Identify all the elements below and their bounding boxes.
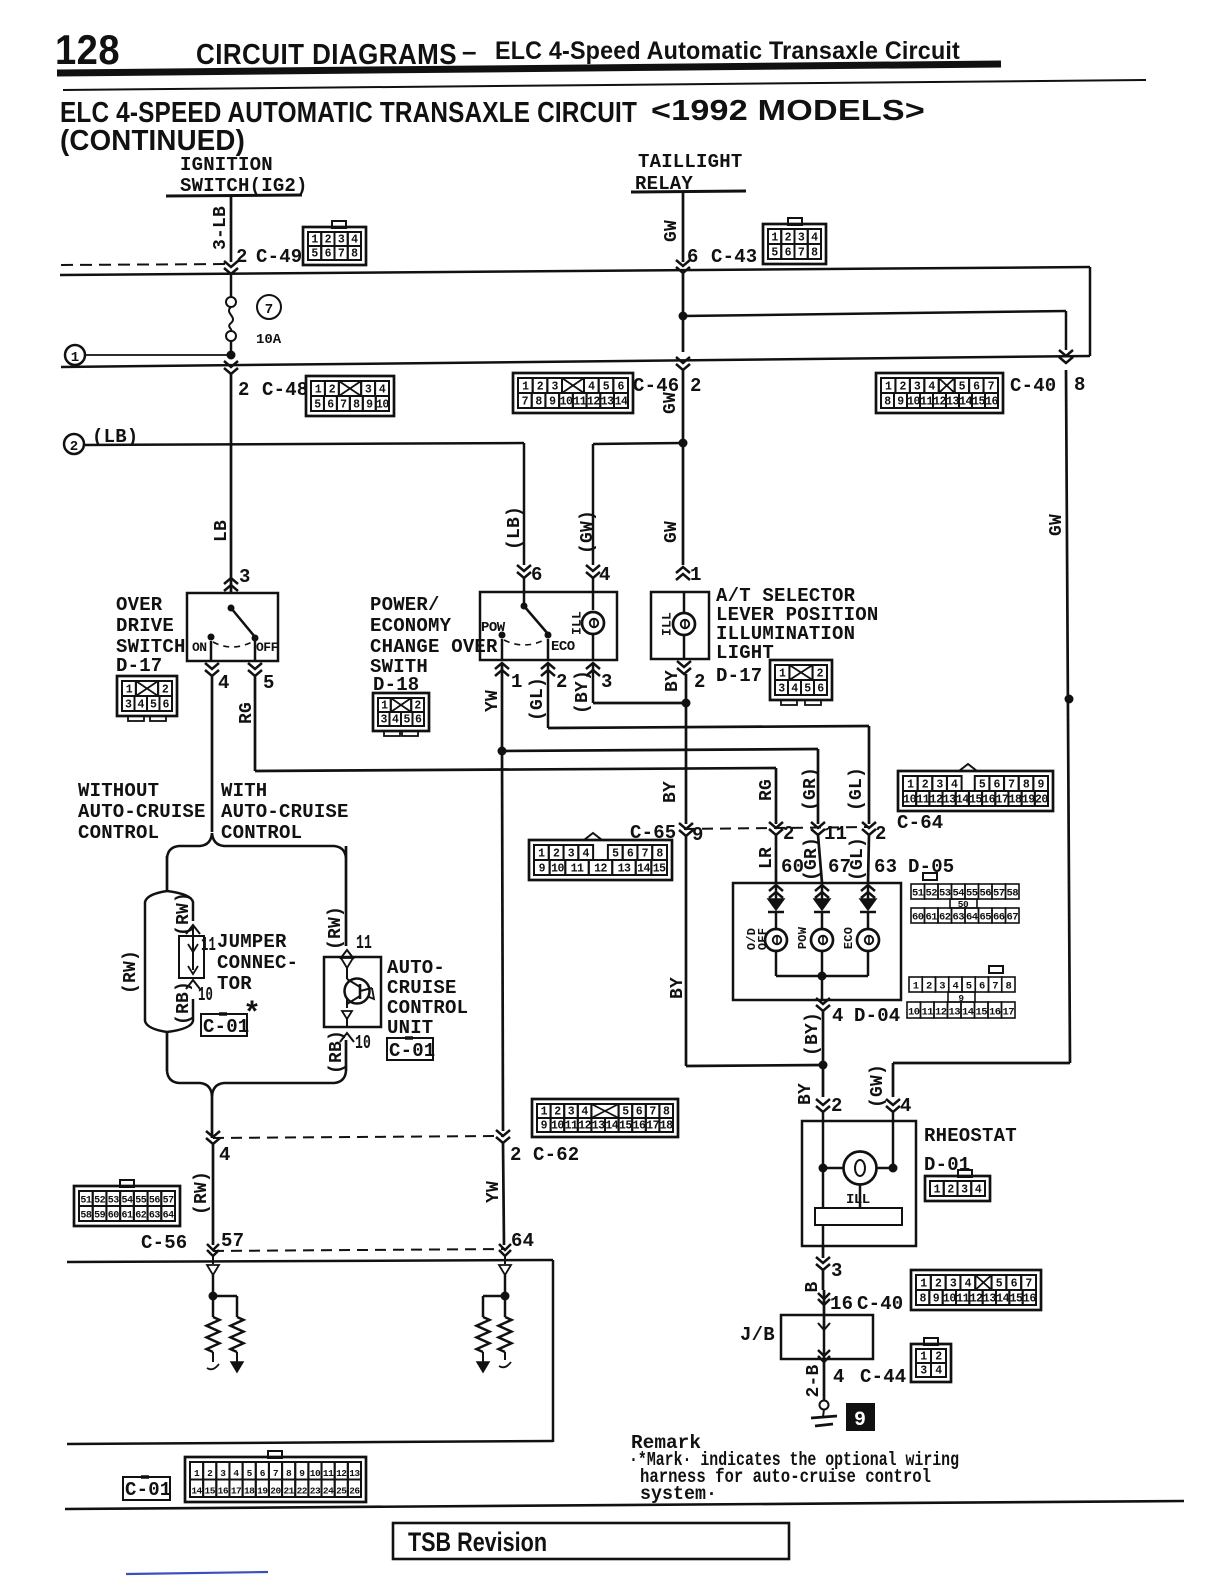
- svg-text:POW: POW: [796, 926, 810, 949]
- bus line upper: [60, 267, 1090, 275]
- svg-text:15: 15: [969, 794, 982, 807]
- svg-text:9: 9: [541, 1120, 548, 1133]
- svg-text:10A: 10A: [256, 332, 282, 348]
- svg-text:4: 4: [138, 699, 145, 712]
- J/B exit arrow: [818, 1350, 830, 1356]
- branch wire YW to GR: [502, 749, 818, 751]
- svg-text:6: 6: [785, 247, 792, 260]
- wire RW from overdrive pin4: [211, 676, 214, 832]
- svg-text:CONTROL: CONTROL: [78, 822, 159, 844]
- svg-text:11: 11: [921, 1007, 933, 1019]
- svg-text:7: 7: [340, 399, 347, 412]
- svg-text:2-B: 2-B: [804, 1364, 824, 1397]
- svg-text:(LB): (LB): [505, 506, 525, 550]
- svg-text:18: 18: [244, 1486, 255, 1497]
- svg-text:POWER/: POWER/: [370, 594, 440, 616]
- wire GW down to A/T selector: [682, 370, 685, 565]
- svg-text:59: 59: [94, 1211, 106, 1222]
- svg-text:5: 5: [404, 714, 411, 727]
- rheostat bulb: [822, 1112, 825, 1168]
- svg-text:6: 6: [687, 246, 699, 268]
- svg-text:16: 16: [1023, 1293, 1036, 1306]
- svg-text:5: 5: [311, 248, 318, 261]
- svg-text:20: 20: [1035, 794, 1048, 807]
- svg-text:64: 64: [163, 1211, 175, 1222]
- svg-text:WITH: WITH: [221, 780, 267, 802]
- svg-text:26: 26: [349, 1486, 360, 1497]
- svg-text:7: 7: [642, 848, 649, 861]
- wire LB to power economy pin 6: [84, 443, 524, 445]
- wire YW from power economy pin1: [501, 663, 504, 751]
- svg-text:1: 1: [690, 564, 702, 586]
- svg-text:61: 61: [925, 912, 937, 924]
- svg-text:OFF: OFF: [256, 640, 279, 655]
- svg-text:WITHOUT: WITHOUT: [78, 780, 159, 802]
- svg-text:LB: LB: [212, 520, 232, 542]
- svg-text:TAILLIGHT: TAILLIGHT: [638, 151, 742, 173]
- svg-text:53: 53: [939, 888, 951, 900]
- blue pen mark: [126, 1572, 268, 1574]
- svg-text:13: 13: [618, 863, 631, 876]
- pin 3 arrow into overdrive switch: [224, 585, 238, 591]
- svg-text:10: 10: [560, 396, 573, 409]
- C-62 pin 2 arrow: [496, 1130, 510, 1136]
- svg-text:1: 1: [913, 981, 919, 993]
- svg-text:9: 9: [1037, 779, 1044, 792]
- svg-text:3: 3: [365, 384, 372, 397]
- svg-text:C-49: C-49: [256, 246, 302, 268]
- wire GL into D-05 pin 63: [868, 835, 869, 883]
- svg-text:11: 11: [356, 932, 372, 954]
- svg-text:ECO: ECO: [551, 639, 575, 655]
- svg-text:17: 17: [231, 1486, 242, 1497]
- svg-text:13: 13: [943, 794, 956, 807]
- svg-text:(GR): (GR): [802, 837, 822, 881]
- svg-text:BY: BY: [661, 781, 681, 803]
- diode ECO: [867, 885, 870, 899]
- svg-text:OFF: OFF: [756, 928, 770, 950]
- svg-text:21: 21: [283, 1486, 294, 1497]
- svg-text:3: 3: [950, 1278, 957, 1291]
- svg-text:2: 2: [556, 671, 568, 693]
- svg-text:GW: GW: [662, 220, 682, 242]
- svg-text:11: 11: [956, 1293, 969, 1306]
- svg-text:7: 7: [273, 1468, 279, 1479]
- pin 64 entry triangle: [504, 1256, 506, 1264]
- svg-text:14: 14: [615, 396, 628, 409]
- svg-text:2: 2: [325, 234, 332, 247]
- svg-text:GW: GW: [662, 521, 682, 543]
- auto-cruise control unit: [340, 950, 354, 959]
- dashed line C-65: [684, 827, 869, 829]
- svg-text:B: B: [803, 1281, 823, 1292]
- power economy switch lever: [521, 603, 528, 610]
- svg-text:9: 9: [854, 1409, 866, 1432]
- svg-text:C-40: C-40: [857, 1293, 903, 1315]
- svg-text:58: 58: [80, 1211, 92, 1222]
- arrow at C-49 pin 2: [224, 261, 238, 267]
- svg-text:AUTO-CRUISE: AUTO-CRUISE: [221, 801, 349, 823]
- rheostat pin 2 arrow: [822, 1065, 825, 1097]
- svg-text:14: 14: [191, 1486, 202, 1497]
- pull resistors left pair: [207, 1317, 220, 1352]
- svg-text:4: 4: [900, 1095, 912, 1117]
- junction dot YW branch: [498, 747, 507, 756]
- svg-text:16: 16: [218, 1486, 229, 1497]
- svg-text:1: 1: [779, 668, 786, 681]
- svg-text:(GL): (GL): [847, 767, 867, 811]
- svg-text:11: 11: [571, 863, 584, 876]
- wire LR into D-05 pin 60: [775, 835, 778, 883]
- junction dot GW branch to C-40: [679, 312, 688, 321]
- svg-text:3: 3: [601, 671, 613, 693]
- svg-text:3: 3: [568, 1106, 575, 1119]
- svg-text:5: 5: [314, 399, 321, 412]
- connector icon C-65: [529, 840, 672, 880]
- svg-text:15: 15: [975, 1007, 987, 1019]
- svg-text:16: 16: [830, 1293, 853, 1315]
- svg-text:D-01: D-01: [924, 1154, 970, 1176]
- wire 3-LB from ignition switch: [230, 196, 233, 262]
- svg-text:2: 2: [70, 439, 78, 455]
- svg-text:8: 8: [535, 396, 542, 409]
- wire BY from power economy pin3 joining selector BY: [592, 663, 595, 703]
- svg-text:10: 10: [198, 984, 213, 1006]
- rheostat pin 4 arrow: [886, 1099, 900, 1105]
- wire RG from overdrive pin5: [254, 676, 257, 771]
- svg-text:4: 4: [379, 384, 386, 397]
- svg-text:2: 2: [238, 379, 250, 401]
- svg-text:54: 54: [121, 1196, 133, 1207]
- svg-text:6: 6: [325, 248, 332, 261]
- jumper loop: [145, 891, 167, 1032]
- svg-text:C-01: C-01: [389, 1040, 435, 1062]
- svg-text:5: 5: [959, 381, 966, 394]
- svg-text:4: 4: [219, 1144, 231, 1166]
- overdrive pin 4 and 5 arrows: [210, 641, 213, 661]
- svg-text:(RW): (RW): [192, 1171, 212, 1215]
- power economy ILL bulb: [582, 612, 604, 634]
- svg-text:54: 54: [952, 888, 964, 900]
- connector icon D-17 overdrive: [117, 676, 177, 716]
- svg-text:4: 4: [832, 1005, 844, 1027]
- svg-text:5: 5: [979, 779, 986, 792]
- connector icon C-49: [303, 227, 366, 265]
- svg-text:16: 16: [633, 1120, 646, 1133]
- svg-text:JUMPER: JUMPER: [217, 931, 287, 953]
- node 1 circle: [65, 345, 85, 365]
- svg-text:AUTO-CRUISE: AUTO-CRUISE: [78, 801, 206, 823]
- svg-text:1: 1: [907, 779, 914, 792]
- svg-text:7: 7: [992, 981, 998, 993]
- svg-text:57: 57: [993, 888, 1005, 900]
- svg-text:5: 5: [966, 981, 972, 993]
- svg-text:23: 23: [310, 1486, 321, 1497]
- svg-text:2: 2: [785, 232, 792, 245]
- wire GW from taillight relay: [682, 192, 685, 262]
- svg-text:LIGHT: LIGHT: [716, 642, 774, 664]
- svg-text:TOR: TOR: [217, 973, 252, 995]
- svg-text:ILL: ILL: [846, 1192, 870, 1208]
- svg-text:11: 11: [916, 794, 929, 807]
- svg-text:4: 4: [952, 981, 958, 993]
- rheostat resistor box: [815, 1208, 902, 1225]
- connector icon C-56: [74, 1186, 180, 1226]
- wire GW right side down: [1066, 370, 1070, 1063]
- svg-text:16: 16: [982, 794, 995, 807]
- svg-text:ECONOMY: ECONOMY: [370, 615, 452, 637]
- svg-text:2: 2: [553, 848, 560, 861]
- svg-text:3: 3: [914, 381, 921, 394]
- power economy contact arc dashed: [504, 640, 544, 645]
- svg-text:12: 12: [935, 1007, 947, 1019]
- connector icon C-48: [306, 376, 394, 416]
- svg-text:7: 7: [1025, 1278, 1032, 1291]
- overdrive switch box: [187, 593, 278, 661]
- svg-text:2: 2: [329, 384, 336, 397]
- svg-text:9: 9: [897, 396, 904, 409]
- svg-text:12: 12: [578, 1120, 591, 1133]
- junction dot fuse output: [227, 351, 236, 360]
- svg-text:4: 4: [233, 1468, 239, 1479]
- svg-text:10: 10: [551, 863, 564, 876]
- svg-text:(RW): (RW): [121, 950, 141, 994]
- arrow at C-40 pin 8: [1059, 350, 1073, 356]
- svg-text:56: 56: [149, 1196, 161, 1207]
- svg-text:3: 3: [125, 699, 132, 712]
- svg-text:19: 19: [257, 1486, 268, 1497]
- svg-text:2: 2: [899, 381, 906, 394]
- C-65 pin 2 arrow RG: [775, 768, 778, 824]
- svg-text:2: 2: [537, 381, 544, 394]
- svg-text:6: 6: [1011, 1278, 1018, 1291]
- svg-text:10: 10: [903, 794, 916, 807]
- svg-text:*: *: [243, 998, 261, 1032]
- connector icon D-04 pins: [989, 966, 1003, 973]
- svg-text:13: 13: [349, 1468, 360, 1479]
- branch merge curly: [167, 1071, 212, 1096]
- svg-text:(BY): (BY): [573, 670, 593, 714]
- ground reference 9 black box: [847, 1404, 874, 1430]
- svg-text:4: 4: [588, 381, 595, 394]
- svg-text:2: 2: [935, 1351, 942, 1364]
- svg-text:3: 3: [381, 714, 388, 727]
- svg-text:RHEOSTAT: RHEOSTAT: [924, 1125, 1017, 1147]
- svg-text:9: 9: [933, 1293, 940, 1306]
- arrow at C-48 pin 2: [224, 361, 238, 367]
- svg-text:3: 3: [936, 779, 943, 792]
- svg-text:62: 62: [939, 912, 951, 924]
- A/T selector light box: [651, 592, 709, 659]
- svg-text:6: 6: [973, 381, 980, 394]
- C-56 pin 57 crossing: [207, 1244, 219, 1250]
- svg-text:12: 12: [930, 794, 943, 807]
- svg-text:8: 8: [351, 248, 358, 261]
- svg-text:LR: LR: [757, 847, 777, 869]
- svg-text:4: 4: [975, 1184, 982, 1197]
- fuse 7 10A: [230, 274, 233, 298]
- svg-text:15: 15: [972, 396, 985, 409]
- svg-text:AUTO-: AUTO-: [387, 957, 445, 979]
- svg-text:5: 5: [771, 247, 778, 260]
- svg-text:2: 2: [510, 1144, 522, 1166]
- node 2 circle with LB label: [64, 434, 84, 454]
- overdrive switch contact arc dashed: [213, 642, 252, 647]
- svg-text:1: 1: [511, 671, 523, 693]
- svg-text:D-17: D-17: [716, 665, 762, 687]
- svg-text:6: 6: [163, 699, 170, 712]
- GW corner to rheostat pin4: [893, 1062, 1070, 1065]
- svg-text:20: 20: [270, 1486, 281, 1497]
- svg-text:14: 14: [605, 1120, 618, 1133]
- svg-text:J/B: J/B: [740, 1324, 775, 1346]
- connector icon C-64: [898, 771, 1053, 811]
- header thin rule: [63, 80, 1146, 90]
- svg-text:1: 1: [315, 384, 322, 397]
- svg-text:15: 15: [619, 1120, 632, 1133]
- branch wire GW to power economy pin 4: [593, 443, 683, 444]
- selector pin 2 arrow BY: [677, 661, 691, 667]
- svg-text:8: 8: [919, 1293, 926, 1306]
- svg-text:5: 5: [247, 1468, 253, 1479]
- rheostat pin 3 arrow: [822, 1246, 825, 1258]
- svg-text:10: 10: [310, 1468, 321, 1479]
- connector icon D-18: [373, 693, 429, 731]
- diode POW: [821, 885, 824, 899]
- svg-text:4: 4: [833, 1366, 845, 1388]
- svg-text:RG: RG: [237, 702, 257, 724]
- svg-text:<1992 MODELS>: <1992 MODELS>: [651, 95, 925, 127]
- O/D OFF bulb: [775, 912, 778, 929]
- wire GW down to C-46: [682, 273, 685, 352]
- branch wire GW to C-40 pin 8: [683, 311, 1066, 316]
- svg-text:62: 62: [135, 1211, 147, 1222]
- svg-text:3: 3: [220, 1468, 226, 1479]
- svg-text:7: 7: [522, 396, 529, 409]
- svg-text:15: 15: [1010, 1293, 1023, 1306]
- C-65 pin 9 arrow: [679, 823, 693, 829]
- arrow at C-43 pin 6: [676, 260, 690, 266]
- svg-text:60: 60: [912, 912, 924, 924]
- svg-text:12: 12: [594, 863, 607, 876]
- svg-text:14: 14: [637, 863, 650, 876]
- svg-text:67: 67: [1006, 912, 1018, 924]
- wire BY down to C-65: [685, 674, 688, 824]
- svg-text:57: 57: [221, 1230, 244, 1252]
- svg-text:6: 6: [994, 779, 1001, 792]
- svg-text:4: 4: [935, 1365, 942, 1378]
- svg-text:(RB): (RB): [174, 981, 194, 1025]
- svg-text:7: 7: [988, 381, 995, 394]
- jumper connector symbol: [186, 925, 200, 934]
- branch split curly: [167, 833, 212, 858]
- wire YW down to C-62: [502, 751, 503, 1131]
- ground wire and symbol: [823, 1362, 826, 1400]
- svg-text:11: 11: [323, 1468, 334, 1479]
- svg-text:BY: BY: [796, 1083, 816, 1105]
- svg-text:6: 6: [260, 1468, 266, 1479]
- svg-text:2: 2: [414, 700, 421, 713]
- junction dot resistors right: [501, 1292, 510, 1301]
- svg-text:2: 2: [922, 779, 929, 792]
- svg-text:8: 8: [884, 396, 891, 409]
- connector icon D-01: [925, 1176, 990, 1201]
- svg-text:4: 4: [928, 381, 935, 394]
- diode O/D: [775, 885, 778, 899]
- wire RW between C-62 and C-56: [212, 1144, 215, 1245]
- svg-text:7: 7: [798, 247, 805, 260]
- svg-text:3: 3: [798, 232, 805, 245]
- connector icon C-62: [532, 1099, 678, 1137]
- svg-text:DRIVE: DRIVE: [116, 615, 174, 637]
- svg-text:12: 12: [587, 396, 600, 409]
- connector icon D-05 pins: [923, 873, 937, 880]
- svg-text:CONNEC-: CONNEC-: [217, 952, 298, 974]
- svg-text:10: 10: [551, 1120, 564, 1133]
- power economy pin 6 arrow: [517, 565, 531, 571]
- svg-text:1: 1: [934, 1184, 941, 1197]
- svg-text:1: 1: [538, 848, 545, 861]
- svg-text:6: 6: [817, 683, 824, 696]
- svg-text:1: 1: [522, 381, 529, 394]
- pull resistors right pair: [477, 1317, 490, 1352]
- C-01 label box right: [387, 1038, 433, 1060]
- bus line lower: [61, 356, 1090, 367]
- svg-text:5: 5: [804, 683, 811, 696]
- connector icon C-43: [763, 224, 826, 264]
- svg-text:8: 8: [1005, 981, 1011, 993]
- svg-text:8: 8: [353, 399, 360, 412]
- svg-text:ILL: ILL: [570, 611, 585, 635]
- svg-text:YW: YW: [483, 690, 503, 712]
- svg-text:12: 12: [336, 1468, 347, 1479]
- svg-text:2: 2: [935, 1278, 942, 1291]
- svg-text:C-01: C-01: [125, 1479, 171, 1501]
- svg-text:C-40: C-40: [1010, 375, 1056, 397]
- svg-text:14: 14: [996, 1293, 1009, 1306]
- svg-text:128: 128: [55, 26, 120, 73]
- svg-text:(RB): (RB): [327, 1030, 347, 1074]
- svg-text:13: 13: [592, 1120, 605, 1133]
- svg-text:BY: BY: [663, 670, 683, 692]
- svg-text:4: 4: [965, 1278, 972, 1291]
- svg-text:11: 11: [565, 1120, 578, 1133]
- svg-text:56: 56: [979, 888, 991, 900]
- svg-text:57: 57: [163, 1196, 175, 1207]
- without branch wire RW: [166, 856, 169, 891]
- page bottom rule: [65, 1501, 1184, 1509]
- bulb common bus: [775, 951, 778, 976]
- svg-text:7: 7: [1008, 779, 1015, 792]
- svg-text:CRUISE: CRUISE: [387, 977, 457, 999]
- svg-text:5: 5: [612, 848, 619, 861]
- svg-text:3: 3: [551, 381, 558, 394]
- svg-text:2: 2: [207, 1468, 213, 1479]
- dashed line C-62: [213, 1136, 503, 1138]
- svg-text:D-05: D-05: [908, 856, 954, 878]
- svg-text:9: 9: [692, 824, 704, 846]
- svg-text:3: 3: [939, 981, 945, 993]
- svg-text:BY: BY: [668, 977, 688, 999]
- svg-text:24: 24: [323, 1486, 334, 1497]
- wire YW between C-62 and C-56: [503, 1143, 504, 1245]
- svg-text:9: 9: [539, 863, 546, 876]
- connector icon C-40 upper: [876, 373, 1003, 413]
- svg-text:25: 25: [336, 1486, 347, 1497]
- svg-text:14: 14: [959, 396, 972, 409]
- without branch wire to merge: [166, 1032, 169, 1071]
- pin 57 entry triangle: [212, 1256, 214, 1264]
